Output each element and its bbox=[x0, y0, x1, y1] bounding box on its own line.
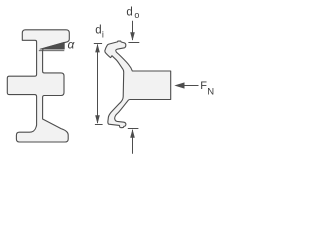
svg-text:i: i bbox=[102, 29, 104, 39]
svg-text:o: o bbox=[134, 10, 139, 20]
d_i top arrow bbox=[95, 44, 100, 53]
d_o top line bbox=[132, 21, 134, 40]
d_o top tick bbox=[128, 42, 139, 44]
d_o bottom tick bbox=[128, 128, 139, 130]
rail profile cross-section bbox=[7, 30, 69, 142]
svg-text:α: α bbox=[68, 38, 76, 52]
d_i bottom tick bbox=[95, 124, 103, 126]
snap-fit clip (body + two hook arms) bbox=[105, 41, 171, 128]
angle alpha wedge (filled) bbox=[40, 42, 64, 49]
d_o bottom arrow bbox=[130, 129, 135, 138]
d_o top arrow bbox=[130, 32, 135, 41]
d_i top tick bbox=[94, 43, 102, 45]
F_N arrowhead bbox=[174, 82, 184, 88]
d_o bottom line bbox=[132, 130, 134, 154]
svg-text:d: d bbox=[95, 25, 101, 37]
horizontal reference line under wedge bbox=[39, 50, 65, 52]
d_i bottom arrow bbox=[95, 115, 100, 124]
F_N arrow line bbox=[183, 85, 199, 87]
svg-text:N: N bbox=[207, 86, 214, 97]
d_i line bbox=[97, 45, 99, 124]
svg-text:d: d bbox=[126, 7, 132, 19]
